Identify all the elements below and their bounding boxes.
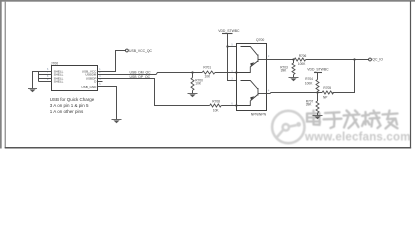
svg-text:39K: 39K — [306, 103, 313, 107]
wire R703 to ground — [293, 75, 295, 78]
svg-text:VDD_STWBC: VDD_STWBC — [307, 68, 329, 72]
wire Q700B base pin 4 to divider node — [267, 93, 323, 94]
transistor Q700A (top NPN) — [237, 47, 267, 73]
page top edge — [0, 0, 415, 2]
resistor R706 — [294, 58, 305, 61]
svg-text:3 A on pin 1 & pin 5: 3 A on pin 1 & pin 5 — [50, 103, 89, 108]
svg-text:J700: J700 — [51, 61, 58, 65]
wire shell pins bus — [33, 72, 52, 89]
junction divider node — [316, 91, 318, 93]
frame left line — [5, 2, 6, 148]
wire USB_VCC pin 1 — [98, 51, 126, 72]
svg-text:USB_VCC_QC: USB_VCC_QC — [129, 49, 153, 53]
svg-text:100K: 100K — [298, 62, 306, 66]
ground (R703) — [289, 78, 299, 82]
svg-text:R701: R701 — [203, 66, 211, 70]
resistor R705 — [322, 91, 333, 94]
note text — [50, 97, 95, 114]
wire VDD to R704 — [317, 73, 319, 80]
connector J700 pin name labels — [54, 70, 98, 90]
junction at Q700 pin 6 — [235, 104, 237, 106]
wire Q700A base pin 2 — [267, 59, 295, 61]
svg-text:USB_GND: USB_GND — [81, 85, 97, 89]
connector J700 pin numbers 6 7 8 9 / 1 2 3 4 5 — [47, 69, 101, 86]
frame right line — [410, 1, 411, 148]
svg-text:QC_IO: QC_IO — [372, 58, 383, 62]
svg-text:www.elecfans.com: www.elecfans.com — [304, 132, 411, 144]
svg-text:100K: 100K — [305, 81, 313, 85]
terminal USB_VCC_QC — [126, 49, 129, 52]
svg-text:R705: R705 — [323, 86, 331, 90]
wire VDD riser to Q700 collectors — [228, 34, 237, 81]
page left edge — [0, 0, 2, 149]
svg-text:10K: 10K — [205, 75, 212, 79]
resistor R707 — [316, 101, 319, 113]
ground (R707) — [313, 116, 323, 120]
wire R700 to ground — [192, 90, 194, 93]
svg-text:NP: NP — [323, 95, 327, 99]
connector J700 body — [52, 66, 98, 91]
junction VDD to pin 5 — [226, 45, 228, 47]
svg-text:10K: 10K — [213, 108, 220, 112]
junction at Q700 pin 1 — [235, 71, 237, 73]
wire USB_GND pin 5 — [98, 87, 117, 120]
svg-text:USB for Quick Charge: USB for Quick Charge — [50, 97, 95, 102]
wire node down to R703 — [293, 60, 295, 64]
Q700 pin numbers — [231, 45, 270, 106]
wire R701 to Q700 emitter pin 1 — [215, 72, 237, 74]
svg-text:USB_DP_QC: USB_DP_QC — [130, 75, 151, 79]
frame bottom line — [5, 147, 411, 149]
resistor R708 — [210, 104, 221, 107]
transistor Q700B (bottom NPN) — [237, 81, 267, 106]
wire ID pin 4 stub — [98, 81, 103, 83]
svg-text:R708: R708 — [212, 100, 220, 104]
wire DM node down — [192, 73, 194, 78]
watermark chinese text — [307, 111, 398, 129]
watermark logo — [272, 111, 304, 143]
svg-text:SHELL: SHELL — [54, 80, 64, 84]
junction DM node — [191, 71, 193, 73]
ground (shell) — [28, 89, 37, 93]
power VDD_STWBC bar (right) — [314, 72, 322, 74]
svg-text:NPN/NPN: NPN/NPN — [251, 112, 267, 116]
wire USB_DM pin 2 — [98, 73, 203, 75]
wire R705 up to QC_IO line — [333, 60, 355, 93]
svg-text:Q700: Q700 — [256, 38, 264, 42]
svg-text:VDD_STWBC: VDD_STWBC — [218, 29, 240, 33]
wire R707 to ground — [317, 113, 319, 116]
emitter arrow Q700A — [250, 62, 254, 66]
transistor pack Q700 box — [237, 44, 267, 111]
resistor R704 — [316, 80, 319, 92]
wire R706 to QC_IO terminal — [306, 59, 369, 61]
ground (USB_GND) — [112, 120, 122, 124]
resistor R703 — [292, 63, 295, 75]
resistor R701 — [202, 71, 215, 74]
wire R708 to Q700 emitter pin 6 — [221, 105, 236, 107]
wire to Q700 collector pin 5 — [228, 46, 237, 48]
wire R704 to divider node — [317, 91, 319, 92]
wire USB_DP pin 3 — [98, 79, 210, 106]
svg-text:1 A on other pins: 1 A on other pins — [50, 109, 84, 114]
svg-text:R706: R706 — [299, 54, 307, 58]
terminal QC_IO — [369, 58, 372, 61]
svg-text:10K: 10K — [195, 82, 202, 86]
junction QC_IO / R705 riser — [353, 58, 355, 60]
junction base node — [292, 58, 294, 60]
power VDD_STWBC bar (left) — [222, 33, 233, 35]
resistor R700 — [191, 78, 194, 91]
wire divider node down to R707 — [317, 93, 319, 102]
ground (R700) — [188, 94, 198, 98]
svg-text:39K: 39K — [281, 69, 288, 73]
emitter arrow Q700B — [250, 96, 254, 100]
